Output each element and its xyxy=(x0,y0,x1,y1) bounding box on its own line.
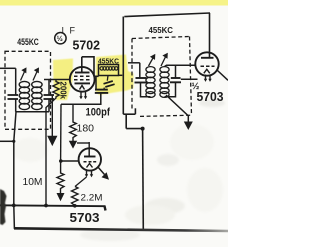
svg-text:180: 180 xyxy=(77,122,95,134)
svg-text:455KC: 455KC xyxy=(98,57,119,66)
svg-text:10M: 10M xyxy=(23,177,43,188)
svg-text:200k: 200k xyxy=(59,82,68,100)
svg-text:455KC: 455KC xyxy=(17,37,39,47)
svg-text:5703: 5703 xyxy=(197,90,224,104)
svg-text:100pf: 100pf xyxy=(86,106,111,118)
svg-text:455KC: 455KC xyxy=(149,25,174,35)
svg-text:5702: 5702 xyxy=(73,38,101,52)
svg-text:2.2M: 2.2M xyxy=(81,192,103,203)
svg-text:5703: 5703 xyxy=(70,211,100,225)
svg-text:½: ½ xyxy=(57,34,63,43)
